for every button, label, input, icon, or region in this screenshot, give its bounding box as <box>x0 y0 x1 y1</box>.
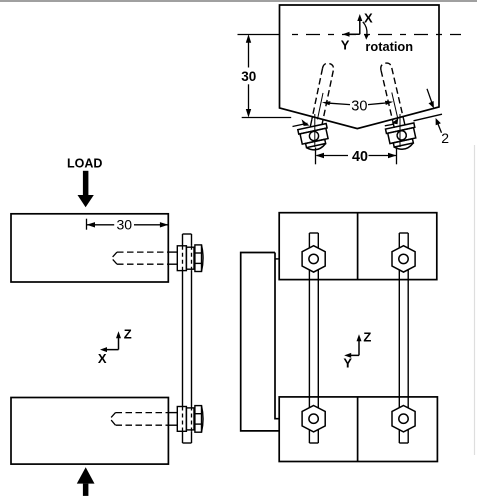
svg-text:X: X <box>98 351 107 366</box>
svg-text:2: 2 <box>441 130 449 146</box>
svg-text:rotation: rotation <box>365 39 413 54</box>
svg-text:LOAD: LOAD <box>67 157 102 171</box>
svg-text:30: 30 <box>351 99 367 115</box>
svg-text:X: X <box>364 10 373 25</box>
svg-text:Y: Y <box>343 356 352 371</box>
svg-text:30: 30 <box>241 69 256 84</box>
svg-text:Y: Y <box>341 37 350 52</box>
svg-text:Z: Z <box>363 329 371 344</box>
svg-text:40: 40 <box>352 149 368 165</box>
svg-text:30: 30 <box>117 217 133 233</box>
svg-text:Z: Z <box>124 326 132 341</box>
